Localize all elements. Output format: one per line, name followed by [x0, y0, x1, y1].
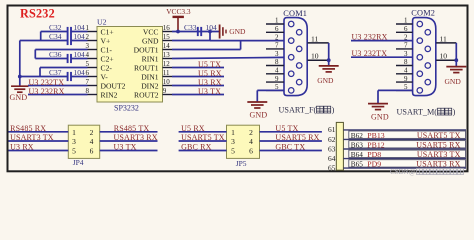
- svg-text:11: 11: [311, 34, 319, 43]
- svg-text:JP4: JP4: [73, 158, 84, 167]
- svg-text:GND: GND: [142, 36, 159, 45]
- svg-text:U3 232RX: U3 232RX: [29, 87, 65, 96]
- svg-text:4: 4: [404, 67, 408, 75]
- connector COM1: [283, 9, 307, 96]
- connector JP5: [227, 125, 260, 168]
- svg-text:PD9: PD9: [367, 160, 381, 169]
- svg-text:USART3 RX: USART3 RX: [416, 160, 460, 169]
- COM1 caption USART_F: [279, 106, 335, 115]
- svg-text:RS485 RX: RS485 RX: [10, 124, 46, 133]
- svg-text:4: 4: [90, 137, 94, 146]
- svg-text:2: 2: [275, 33, 279, 41]
- net label U3_TX wire: [100, 142, 158, 151]
- svg-text:13: 13: [163, 51, 171, 59]
- svg-text:9: 9: [275, 75, 279, 83]
- ground symbol sideways near C33: [220, 25, 246, 39]
- wire pin4 to C36: [71, 58, 88, 60]
- junction on ground rail: [18, 75, 22, 79]
- svg-text:U3 232TX: U3 232TX: [352, 49, 388, 58]
- wire pin5 with drop to row6: [40, 68, 88, 77]
- svg-text:U3 232RX: U3 232RX: [352, 33, 388, 42]
- svg-text:6: 6: [275, 25, 279, 33]
- svg-text:GND: GND: [371, 112, 389, 121]
- svg-text:C1-: C1-: [101, 45, 113, 54]
- svg-text:DOUT2: DOUT2: [101, 81, 126, 90]
- port B65 PD9 net USART3_RX: [343, 160, 466, 169]
- svg-text:C1+: C1+: [101, 27, 114, 36]
- svg-text:GND: GND: [445, 77, 462, 86]
- svg-text:61: 61: [328, 125, 336, 134]
- svg-text:ROUT1: ROUT1: [134, 63, 159, 72]
- port B63 PB12 net USART5_RX: [343, 140, 466, 149]
- svg-text:14: 14: [163, 42, 171, 50]
- COM2 left pin stubs and numbers: [396, 17, 413, 91]
- svg-text:): ): [453, 108, 456, 117]
- svg-text:U2: U2: [97, 18, 107, 27]
- svg-text:10: 10: [163, 78, 171, 86]
- svg-text:11: 11: [440, 34, 448, 43]
- svg-text:63: 63: [328, 144, 336, 153]
- watermark text: [390, 168, 464, 176]
- svg-text:6: 6: [90, 147, 94, 156]
- svg-text:PB13: PB13: [367, 131, 384, 140]
- svg-text:GND: GND: [229, 27, 246, 36]
- svg-text:12: 12: [163, 60, 171, 68]
- svg-text:USART5 RX: USART5 RX: [275, 133, 319, 142]
- svg-text:16: 16: [163, 24, 171, 32]
- capacitor C37: [49, 68, 71, 81]
- svg-text:U3 232TX: U3 232TX: [29, 78, 65, 87]
- wire pin15 riser to VCC rail: [172, 32, 210, 41]
- svg-text:64: 64: [328, 154, 336, 163]
- svg-text:U5 RX: U5 RX: [181, 124, 205, 133]
- svg-text:8: 8: [404, 58, 408, 66]
- ground rail drop on left: [19, 41, 21, 86]
- svg-text:RIN1: RIN1: [142, 54, 159, 63]
- capacitor C34: [49, 32, 71, 45]
- svg-text:B63: B63: [351, 140, 364, 149]
- svg-text:U5 RX: U5 RX: [198, 69, 222, 78]
- svg-text:1: 1: [404, 17, 408, 25]
- svg-text:GBC RX: GBC RX: [181, 142, 212, 151]
- svg-text:B64: B64: [351, 150, 364, 159]
- svg-text:U3 RX: U3 RX: [198, 78, 222, 87]
- svg-text:DIN2: DIN2: [141, 81, 158, 90]
- svg-text:USART3 RX: USART3 RX: [114, 133, 158, 142]
- wire COM1 shield to ground: [327, 43, 331, 66]
- wire pin3 with drop to row4: [35, 50, 87, 59]
- wire COM2 pin5 to ground: [378, 90, 413, 103]
- svg-text:USART5 RX: USART5 RX: [416, 140, 460, 149]
- junction C33 to pin15 riser: [208, 30, 212, 34]
- svg-text:11: 11: [163, 69, 170, 77]
- svg-text:V-: V-: [101, 72, 109, 81]
- svg-text:USART3 TX: USART3 TX: [417, 150, 461, 159]
- wire C37 left to ground rail: [20, 76, 68, 78]
- svg-text:1: 1: [72, 128, 76, 137]
- svg-text:DIN1: DIN1: [141, 72, 158, 81]
- svg-text:SP3232: SP3232: [114, 104, 139, 113]
- svg-text:VCC: VCC: [143, 27, 159, 36]
- wire U2 pin13 to COM1 pin3: [172, 57, 284, 58]
- svg-text:5: 5: [72, 147, 76, 156]
- svg-text:COM1: COM1: [283, 9, 307, 18]
- svg-text:U3 TX: U3 TX: [198, 87, 221, 96]
- svg-text:CSDN: CSDN: [390, 168, 409, 176]
- net label USART5_RX wire: [260, 133, 322, 142]
- svg-text:62: 62: [328, 135, 336, 144]
- svg-text:RIN2: RIN2: [101, 90, 118, 99]
- svg-text:3: 3: [275, 50, 279, 58]
- ground symbol COM1 shield: [317, 66, 338, 85]
- svg-text:U3 RX: U3 RX: [10, 142, 34, 151]
- wire pin6 to C37: [71, 76, 88, 78]
- net label GBC_RX wire: [179, 142, 227, 151]
- svg-text:V+: V+: [101, 36, 111, 45]
- connector header pins 61-65: [328, 122, 343, 172]
- svg-text:USART5 TX: USART5 TX: [417, 131, 461, 140]
- wire COM2 shield to ground: [454, 43, 458, 66]
- svg-text:GND: GND: [250, 110, 268, 119]
- svg-text:USART3 TX: USART3 TX: [10, 133, 54, 142]
- svg-text:4: 4: [249, 137, 253, 146]
- net label GBC_TX wire: [260, 142, 322, 151]
- U2 right pin names: [134, 27, 159, 99]
- svg-text:USART_F(: USART_F(: [279, 106, 317, 115]
- net label U5_TX wire: [260, 124, 322, 133]
- svg-text:RS485 TX: RS485 TX: [114, 124, 150, 133]
- svg-text:USART5 TX: USART5 TX: [181, 133, 225, 142]
- svg-text:4: 4: [275, 67, 279, 75]
- svg-text:C2-: C2-: [101, 63, 113, 72]
- svg-text:1: 1: [275, 17, 279, 25]
- svg-text:1: 1: [231, 128, 235, 137]
- net label U3_RX wire: [9, 142, 69, 151]
- svg-text:GND: GND: [317, 76, 334, 85]
- U2 right pins 16-9: [163, 24, 173, 95]
- svg-text:PD8: PD8: [367, 150, 381, 159]
- svg-text:10: 10: [440, 52, 448, 61]
- svg-text:VCC3.3: VCC3.3: [166, 7, 191, 16]
- svg-text:2: 2: [249, 128, 253, 137]
- port B62 PB13 net USART5_TX: [343, 131, 466, 140]
- svg-text:6: 6: [404, 25, 408, 33]
- connector COM2: [411, 9, 436, 96]
- net label U3_232TX on pin7 wire: [28, 78, 88, 87]
- ground symbol COM2 pin5: [368, 104, 389, 122]
- IC U2 SP3232 RS-232 transceiver: [97, 18, 163, 102]
- wire C32 left with drop to row2: [41, 32, 68, 41]
- U2 left pin names: [101, 27, 126, 99]
- svg-text:): ): [332, 106, 335, 115]
- svg-text:@: @: [409, 168, 416, 176]
- svg-text:USART_M(: USART_M(: [397, 108, 438, 117]
- wire U2 pin14 to COM1 pin2 with jog: [172, 41, 284, 50]
- net label U3_RX on U2 pin10: [172, 78, 224, 87]
- svg-text:COM2: COM2: [411, 9, 435, 18]
- capacitor C33: [184, 23, 201, 36]
- svg-text:C2+: C2+: [101, 54, 114, 63]
- svg-text:GND: GND: [10, 93, 28, 102]
- net label USART3_RX wire: [100, 133, 158, 142]
- net label U3_TX on U2 pin9: [172, 87, 224, 96]
- svg-text:65: 65: [328, 163, 336, 172]
- wire pin2 to C34: [71, 40, 88, 42]
- net label U3_232TX to COM2 pin3: [351, 49, 413, 58]
- net label U5_RX wire: [179, 124, 227, 133]
- COM2 pin 11 stub: [436, 34, 456, 43]
- COM1 pin 11 stub: [308, 34, 329, 43]
- ground symbol COM2 shield: [445, 67, 467, 86]
- net label USART5_TX wire: [179, 133, 227, 142]
- port B64 PD8 net USART3_TX: [343, 150, 466, 159]
- svg-text:10: 10: [311, 52, 319, 61]
- COM2 caption USART_M: [397, 108, 456, 117]
- svg-text:3: 3: [72, 137, 76, 146]
- capacitor C36: [49, 50, 71, 63]
- junction pin16 VCC: [176, 30, 180, 34]
- wire C34 left to ground rail: [20, 40, 68, 42]
- power symbol VCC3.3: [166, 7, 191, 31]
- U2 left pins 1-8: [86, 24, 98, 95]
- svg-text:9: 9: [163, 87, 167, 95]
- capacitor C32: [49, 23, 71, 36]
- net label RS485_RX wire: [9, 124, 69, 133]
- net label U3_232RX to COM2 pin2: [351, 33, 413, 42]
- svg-text:C33: C33: [184, 23, 197, 32]
- svg-text:JP5: JP5: [236, 159, 247, 168]
- svg-text:ROUT2: ROUT2: [134, 90, 159, 99]
- svg-text:GBC TX: GBC TX: [275, 142, 305, 151]
- wire pin1 to C32: [71, 31, 88, 33]
- svg-text:U5 TX: U5 TX: [275, 124, 298, 133]
- svg-text:6: 6: [249, 147, 253, 156]
- connector JP4: [68, 125, 99, 167]
- svg-text:DOUT1: DOUT1: [134, 45, 159, 54]
- COM2 pin 10 stub: [436, 52, 456, 61]
- svg-text:2: 2: [90, 128, 94, 137]
- svg-text:RS232: RS232: [20, 6, 55, 20]
- svg-text:7: 7: [404, 42, 408, 50]
- ground symbol lower-left: [10, 86, 29, 102]
- ground symbol COM1 pin5: [247, 102, 267, 119]
- net label USART3_TX wire: [9, 133, 69, 142]
- wire row pin61: [343, 129, 466, 131]
- net label U5_RX on U2 pin11: [172, 69, 224, 78]
- svg-text:PB12: PB12: [367, 140, 384, 149]
- svg-text:5: 5: [231, 147, 235, 156]
- svg-text:3: 3: [231, 137, 235, 146]
- svg-text:9: 9: [404, 75, 408, 83]
- svg-text:U5 TX: U5 TX: [198, 60, 221, 69]
- net label U3_232RX on pin8 wire: [28, 87, 88, 96]
- wire COM1 pin5 to ground: [257, 90, 284, 101]
- COM1 left pin stubs and numbers: [266, 17, 284, 91]
- svg-text:B62: B62: [351, 131, 364, 140]
- COM1 pin 10 stub: [308, 52, 329, 61]
- svg-text:B65: B65: [351, 160, 364, 169]
- wire C36 left segment: [35, 58, 67, 60]
- svg-text:15: 15: [163, 33, 171, 41]
- net label RS485_TX wire: [100, 124, 158, 133]
- wire pin16 rail: [172, 31, 220, 33]
- svg-text:U3 TX: U3 TX: [114, 142, 137, 151]
- svg-text:7: 7: [275, 42, 279, 50]
- svg-text:8: 8: [275, 58, 279, 66]
- net label U5_TX on U2 pin12: [172, 60, 224, 69]
